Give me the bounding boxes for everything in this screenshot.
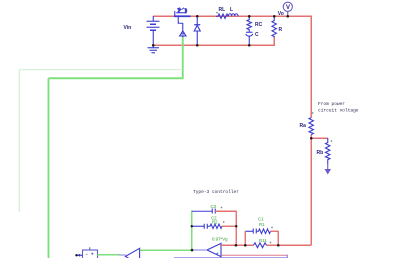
wire comparator output lead bbox=[120, 254, 126, 256]
svg-text:Rb: Rb bbox=[317, 150, 324, 156]
transistor Q1 (MOSFET) bbox=[174, 7, 191, 31]
resistor Rb bbox=[326, 138, 330, 164]
svg-text:R: R bbox=[279, 27, 283, 33]
node diode cathode junction bbox=[196, 15, 199, 18]
wire feedback left green vertical bbox=[191, 211, 193, 250]
svg-text:R2: R2 bbox=[212, 219, 218, 224]
svg-text:RL: RL bbox=[219, 7, 226, 13]
node feedback mid branch left junction bbox=[191, 225, 193, 227]
wire op-amp plus input violet bbox=[222, 254, 288, 256]
gate input of Q1 bbox=[180, 31, 186, 37]
wire block to comparator green bbox=[97, 254, 120, 256]
svg-text:C1: C1 bbox=[258, 217, 264, 222]
resistor R11 input branch bottom bbox=[254, 243, 267, 248]
capacitor C1 + resistor R1 input branch top bbox=[245, 229, 270, 234]
capacitor C3 top feedback branch bbox=[192, 209, 216, 214]
source Vin bbox=[147, 16, 160, 45]
wire sawtooth line violet bbox=[174, 257, 288, 258]
svg-text:From power: From power bbox=[318, 101, 345, 107]
wire inverting input line bbox=[221, 244, 312, 246]
wire input branch verticals bbox=[245, 231, 278, 246]
on-off controller block bbox=[83, 247, 98, 258]
resistor R (load) bbox=[272, 16, 276, 38]
node Ra-Rb divider junction bbox=[310, 137, 313, 140]
node input network right junction bbox=[277, 244, 280, 247]
wire to Rb bbox=[311, 137, 328, 139]
node gating block input junction bbox=[75, 254, 77, 256]
wire bbox=[215, 210, 236, 212]
ground bbox=[148, 45, 160, 53]
voltmeter V bbox=[283, 2, 292, 16]
node R load top junction bbox=[273, 15, 276, 18]
svg-text:RC: RC bbox=[255, 22, 263, 28]
svg-text:V: V bbox=[286, 5, 290, 11]
wire load stub bbox=[273, 38, 275, 46]
wire gate drive bright green bbox=[49, 37, 184, 258]
node op-amp output junction bbox=[191, 249, 194, 252]
svg-text:circuit voltage: circuit voltage bbox=[318, 108, 359, 114]
svg-text:R1: R1 bbox=[259, 222, 265, 227]
svg-text:Vin: Vin bbox=[124, 25, 132, 31]
svg-text:C: C bbox=[255, 32, 259, 38]
node RC branch top junction bbox=[248, 15, 251, 18]
wire feedback right vertical bbox=[235, 211, 237, 246]
capacitor C bbox=[246, 32, 253, 45]
node Vo junction bbox=[286, 15, 289, 18]
comparator U2 (left-facing) bbox=[125, 248, 139, 258]
svg-text:Ra: Ra bbox=[300, 123, 307, 129]
resistor Ra bbox=[309, 118, 313, 135]
ground arrow bbox=[325, 164, 332, 175]
wire op-amp output bbox=[192, 249, 207, 251]
wire pale green bbox=[19, 70, 182, 212]
wire error amp output to comparator green bbox=[140, 249, 192, 251]
node diode anode junction bbox=[196, 44, 199, 47]
wire top rail bbox=[153, 15, 312, 17]
svg-text:R11: R11 bbox=[259, 238, 267, 243]
wire bottom rail bbox=[153, 44, 275, 46]
svg-text:L: L bbox=[230, 7, 233, 13]
resistor RC bbox=[247, 16, 251, 32]
wire right vertical bbox=[310, 16, 312, 245]
svg-text:C3: C3 bbox=[211, 204, 217, 209]
node inverting input feedback junction bbox=[235, 244, 238, 247]
diode D1 bbox=[194, 16, 200, 45]
node feedback mid branch right junction bbox=[235, 225, 237, 227]
wire bbox=[271, 230, 279, 232]
wire arrow at block bbox=[77, 254, 84, 257]
resistor RL + inductor L bbox=[216, 14, 238, 19]
svg-text:Type-3 controller: Type-3 controller bbox=[193, 189, 239, 195]
svg-text:Vo: Vo bbox=[278, 11, 284, 17]
node Vin ground junction bbox=[152, 44, 155, 47]
wire bbox=[222, 225, 237, 227]
op-amp U1 (error amp, left-facing) bbox=[207, 243, 221, 256]
node input network left junction bbox=[244, 244, 247, 247]
svg-text:0.97*Vg: 0.97*Vg bbox=[212, 237, 228, 242]
capacitor C2 + resistor R2 mid feedback branch bbox=[192, 224, 222, 229]
node RC branch bottom junction bbox=[248, 44, 251, 47]
